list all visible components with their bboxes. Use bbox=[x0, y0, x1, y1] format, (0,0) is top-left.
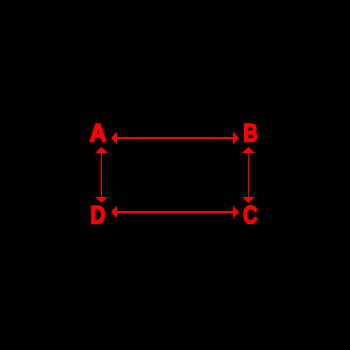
svg-text:A: A bbox=[90, 120, 107, 148]
wire arrow A-B (top horizontal double arrow) bbox=[111, 132, 239, 145]
svg-text:B: B bbox=[243, 118, 258, 146]
svg-text:D: D bbox=[91, 200, 106, 228]
wire arrow B-C (right vertical double arrow) bbox=[242, 147, 255, 203]
svg-text:C: C bbox=[243, 200, 258, 229]
wire arrow A-D (left vertical double arrow) bbox=[95, 147, 108, 203]
wire arrow D-C (bottom horizontal double arrow) bbox=[111, 206, 239, 219]
